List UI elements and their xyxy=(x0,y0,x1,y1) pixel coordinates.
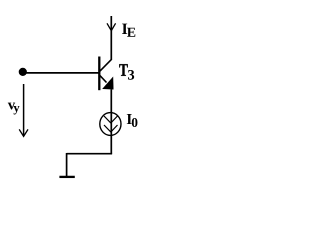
transistor T3: collector diagonal xyxy=(100,60,112,72)
wire: ground riser xyxy=(66,153,68,176)
current source I0: chevron 2 xyxy=(104,125,118,132)
label IE xyxy=(122,24,127,34)
label vy xyxy=(8,103,15,110)
node: input node dot xyxy=(19,68,27,76)
transistor T3: emitter diagonal xyxy=(100,75,107,82)
transistor T3: emitter arrowhead (filled, NPN) xyxy=(103,77,113,89)
current source I0: circle xyxy=(100,113,121,136)
current source I0: chevron 1 xyxy=(104,116,118,123)
label I0 xyxy=(127,114,132,124)
current arrow IE (down) on collector feed xyxy=(107,23,116,30)
voltage arrow vy (shaft) xyxy=(23,84,25,136)
wire: base wire xyxy=(23,72,99,74)
wire: collector feed (top vertical) xyxy=(110,16,112,60)
wire: emitter to current source and down (through circle) xyxy=(110,90,112,154)
transistor T3: base bar xyxy=(98,57,100,91)
wire: bottom horizontal xyxy=(67,153,113,155)
label T3 xyxy=(119,64,127,76)
voltage arrow vy (head) xyxy=(19,129,28,136)
ground xyxy=(59,176,74,178)
